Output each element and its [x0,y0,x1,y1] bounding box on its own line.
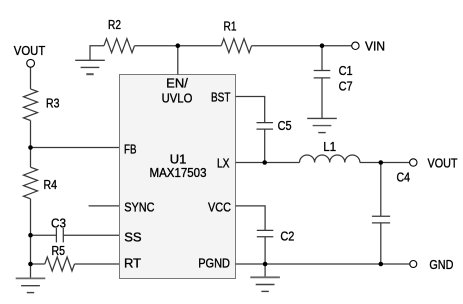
wire: VCC pin to C2 [236,206,266,231]
svg-text:C3: C3 [51,215,66,230]
svg-text:SS: SS [124,229,142,244]
svg-text:R5: R5 [52,243,66,258]
svg-text:GND: GND [429,257,453,272]
svg-text:MAX17503: MAX17503 [150,165,207,180]
node: SS junction [28,233,33,238]
svg-text:FB: FB [124,142,137,157]
svg-text:R1: R1 [224,19,237,34]
wire: C1 to ground [321,78,323,119]
wire: BST pin to C5 [236,97,265,123]
svg-text:C2: C2 [280,228,294,243]
wire: PGND rail to GND terminal [236,263,410,265]
capacitor C3 [55,228,57,242]
wire: RT node to R5 [31,263,45,265]
svg-text:C4: C4 [397,170,411,185]
resistor R3 [24,89,38,121]
wire: R5 to RT pin [75,263,120,265]
wire: ground stub to R2 left lead [90,46,104,61]
wire: SS node to C3 [31,234,57,236]
ground (R2) [75,60,105,74]
ground (C2 PGND) [250,277,280,291]
svg-text:EN/: EN/ [166,76,188,91]
svg-text:C5: C5 [278,118,292,133]
svg-text:C7: C7 [339,79,353,94]
resistor R4 [24,167,38,199]
IC U1 MAX17503 body [120,75,236,279]
wire: SS node down to RT node [30,235,32,264]
ground (C1 C7) [307,118,337,132]
wire: FB node to FB pin [31,147,120,149]
wire: FB node down to R4 [30,148,32,168]
wire: PGND node down to ground [264,264,266,277]
wire: R2 to R1 through EN node [135,45,222,47]
wire: EN node down to IC top [177,46,179,75]
node: C2 PGND junction [263,262,268,267]
wire: L1 to VOUT terminal [360,162,410,164]
wire: C2 to PGND rail [264,237,266,264]
node: VIN junction [320,43,325,48]
wire: VOUT terminal down to R3 [30,67,32,89]
node: LX-C5 junction [262,160,267,165]
node: VOUT junction [379,160,384,165]
wire: C4 to GND rail [380,223,382,264]
wire: RT node down to ground [30,264,32,278]
svg-text:SYNC: SYNC [124,199,154,214]
svg-text:R2: R2 [108,17,121,32]
node: FB junction [28,145,33,150]
svg-text:VCC: VCC [208,199,231,214]
capacitor C5 [257,122,274,124]
svg-text:VOUT: VOUT [428,155,458,170]
terminal VOUT (left) [27,59,35,67]
svg-text:R4: R4 [44,177,58,192]
ground (bottom left) [16,278,46,292]
wire: LX pin to L1 [236,162,300,164]
terminal VOUT (right) [410,159,417,166]
inductor L1 [300,155,360,163]
svg-text:L1: L1 [323,139,336,154]
resistor R2 [104,39,135,53]
capacitor C2 [257,229,274,231]
wire: R4 down to SS node [30,199,32,235]
svg-text:UVLO: UVLO [162,91,193,106]
resistor R1 [221,39,251,53]
svg-text:PGND: PGND [198,256,230,271]
node: EN junction [176,43,181,48]
svg-text:VOUT: VOUT [14,43,46,58]
svg-text:C1: C1 [339,63,353,78]
wire: R1 to VIN terminal [252,45,352,47]
wire: VIN node down to C1 [321,46,323,71]
wire: SYNC pin stub [89,205,119,207]
wire: VOUT node down to C4 [380,163,382,217]
wire: R3 to FB node [30,121,32,148]
node: C4 GND junction [379,262,384,267]
capacitor C1 C7 [314,70,331,72]
wire: C3 to SS pin [63,234,119,236]
wire: C5 to LX node [264,129,266,162]
node: RT junction [28,262,33,267]
terminal GND [410,261,417,268]
terminal VIN [352,42,359,49]
svg-text:R3: R3 [46,95,60,110]
svg-text:RT: RT [124,255,141,270]
capacitor C4 [372,215,390,217]
svg-text:BST: BST [211,90,231,105]
resistor R5 [45,257,75,271]
svg-text:VIN: VIN [365,39,385,54]
svg-text:LX: LX [217,155,230,170]
